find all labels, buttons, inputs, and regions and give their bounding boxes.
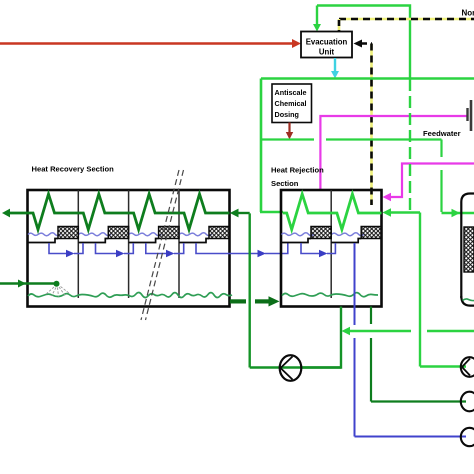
distillate tray stage3 [129,239,159,243]
magenta distillate line 1 [320,116,467,190]
svg-text:Section: Section [271,179,299,188]
continuation break line 1 [141,170,179,320]
rejection tube bundle zigzag [283,194,382,230]
feedwater dashed line [409,79,411,213]
distillate pump P4 [461,428,474,446]
distillate tray stage4 [179,239,209,243]
brine transfer arrow into rejection section [255,296,280,306]
heat recovery vessel shell [28,190,230,307]
brine recirculation pump P1 [280,355,302,381]
make-up to recirculation suction [342,327,474,335]
svg-text:Chemical: Chemical [275,99,307,108]
brine blowdown pipe [371,307,466,402]
spray fan [45,287,70,297]
recovery condensate wavy stage3 [129,233,162,236]
non-condensable gas dashed vent line [339,19,474,32]
antiscale dosing arrow [286,123,293,140]
brine transfer thick bar [230,299,246,303]
demister stage4 [209,227,230,239]
stage partition 3 [178,190,180,298]
demister stage1 [58,227,78,239]
distillate tray stage2 [78,239,108,243]
vapour extraction dashed line into evacuation unit [354,40,373,206]
feed to heat rejection tubes [383,208,467,366]
distillate product pipe [355,243,467,437]
rejection brine pool wavy [282,293,378,297]
blowdown pump P3 [461,392,474,412]
recovery condensate wavy stage1 [28,233,61,236]
distillate drain stage4 to rejection section [196,243,288,257]
vent condenser demister [464,227,474,272]
make-up drop to vessel [442,140,474,218]
distillate tray stage1 [28,239,59,243]
evacuation unit U1 [301,32,352,58]
svg-text:Dosing: Dosing [275,110,299,119]
flange bars [468,100,472,131]
seawater supply pump P2 [461,357,474,377]
rejection demister stage1 [311,227,331,239]
heat rejection vessel shell [281,190,382,307]
heat rejection tube inlet elbow [260,211,283,214]
svg-text:Unit: Unit [319,48,335,57]
rejection condensate wavy stage2 [332,233,365,236]
recovery condensate wavy stage2 [79,233,112,236]
rejection condensate wavy stage1 [282,233,315,236]
svg-text:Non: Non [462,9,474,18]
rejection demister stage2 [361,227,381,239]
rejection stage partition [330,190,332,298]
distillate drain stage3 [146,243,184,257]
vent condenser vessel [461,194,474,306]
stage partition 2 [128,190,130,298]
svg-text:Heat Rejection: Heat Rejection [271,166,324,175]
red steam supply line [0,39,301,48]
distillate drain stage2 [96,243,134,257]
recovery brine pool wavy [28,292,232,297]
svg-text:Heat Recovery Section: Heat Recovery Section [32,165,115,174]
dosed make-up line [261,138,442,140]
svg-text:Evacuation: Evacuation [306,38,348,47]
svg-text:Feedwater: Feedwater [423,129,461,138]
recovery condensate wavy stage4 [179,233,212,236]
demister stage3 [159,227,179,239]
magenta distillate line 2 [383,164,474,202]
rejection distillate drain stage1 [301,243,335,257]
stage partition 1 [77,190,79,298]
recirculated brine spray feed [0,280,60,288]
left green riser from heat rejection outlet [260,79,263,213]
continuation break line 2 [146,170,184,320]
brine recirculation suction [250,213,341,367]
recovery tube bundle zigzag [8,194,230,230]
green line to evacuation unit [313,6,410,79]
svg-text:Antiscale: Antiscale [275,88,307,97]
recirculated brine entry arrow [230,209,250,218]
brine outlet arrow (to brine heater) [2,209,10,218]
cyan condensate drain arrow [331,58,339,79]
antiscale chemical dosing box [272,84,312,123]
distillate drain stage1 [49,243,83,257]
rejection tray stage2 [331,239,361,243]
vent condenser water level [463,299,474,301]
demister stage2 [108,227,128,239]
rejection tray stage1 [281,239,311,243]
cooling water return header [261,77,474,80]
